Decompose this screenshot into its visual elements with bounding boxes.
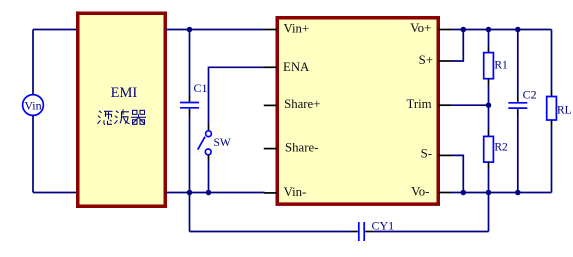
wire SW bottom: [208, 161, 210, 193]
node C2 top: [515, 27, 521, 33]
wire Trim: [451, 104, 489, 106]
capacitor C2: [508, 30, 536, 193]
svg-text:S+: S+: [419, 53, 433, 67]
wire source bottom: [32, 116, 34, 193]
node S+ top: [461, 27, 467, 33]
pin Share+: [264, 104, 277, 106]
svg-text:Vo+: Vo+: [410, 21, 431, 35]
EMI label 器: [131, 110, 146, 124]
wire ENA: [209, 67, 265, 124]
svg-text:Share-: Share-: [285, 140, 318, 154]
svg-text:SW: SW: [214, 137, 231, 149]
svg-text:Share+: Share+: [284, 97, 320, 111]
EMI label 波: [115, 109, 130, 124]
resistor R2: [484, 105, 508, 192]
svg-text:Vin-: Vin-: [284, 185, 307, 199]
node Trim: [486, 102, 492, 108]
svg-text:Trim: Trim: [406, 97, 431, 111]
EMI label 滤: [98, 111, 113, 125]
node R2 bottom: [486, 190, 492, 196]
svg-text:S-: S-: [421, 147, 432, 161]
svg-text:ENA: ENA: [283, 60, 310, 74]
wire source top: [32, 30, 34, 95]
wire top-left: [33, 29, 78, 31]
svg-text:CY1: CY1: [372, 218, 395, 232]
switch SW: [198, 125, 231, 162]
pin Vin+: [264, 29, 277, 31]
svg-text:Vin: Vin: [24, 99, 41, 113]
node R1 top: [486, 27, 492, 33]
pin Vo-: [439, 192, 451, 194]
svg-text:RL: RL: [557, 105, 572, 117]
node SW bottom: [206, 190, 212, 196]
svg-text:C1: C1: [194, 81, 208, 95]
pin ENA: [264, 66, 277, 68]
capacitor CY1: [190, 193, 489, 242]
wire Vo+ rail: [451, 29, 552, 31]
module U1: [277, 18, 438, 204]
wire S+: [451, 30, 463, 62]
node C1 top: [187, 27, 193, 33]
voltage source Vin: [23, 95, 44, 116]
pin S-: [439, 154, 452, 156]
pin S+: [439, 60, 452, 62]
pin Share-: [264, 148, 277, 150]
wire EMI to Vin+: [166, 29, 265, 31]
svg-text:R1: R1: [494, 60, 508, 72]
EMI filter block: [78, 13, 166, 206]
pin Vo+: [439, 29, 452, 31]
svg-text:Vin+: Vin+: [284, 22, 310, 36]
capacitor C1: [180, 30, 208, 193]
svg-text:C2: C2: [523, 87, 537, 101]
wire S-: [451, 155, 463, 192]
node C2 bottom: [515, 190, 521, 196]
resistor RL: [547, 30, 572, 193]
svg-text:EMI: EMI: [111, 85, 138, 101]
svg-text:R2: R2: [494, 142, 508, 154]
svg-text:Vo-: Vo-: [411, 184, 429, 198]
wire bottom-left: [33, 192, 78, 194]
pin Vin-: [264, 192, 277, 194]
resistor R1: [484, 30, 508, 106]
node S- bottom: [461, 190, 467, 196]
pin Trim: [439, 104, 451, 106]
node C1 bottom: [187, 190, 193, 196]
wire Vo- rail: [451, 192, 552, 194]
wire EMI to Vin-: [166, 192, 265, 194]
